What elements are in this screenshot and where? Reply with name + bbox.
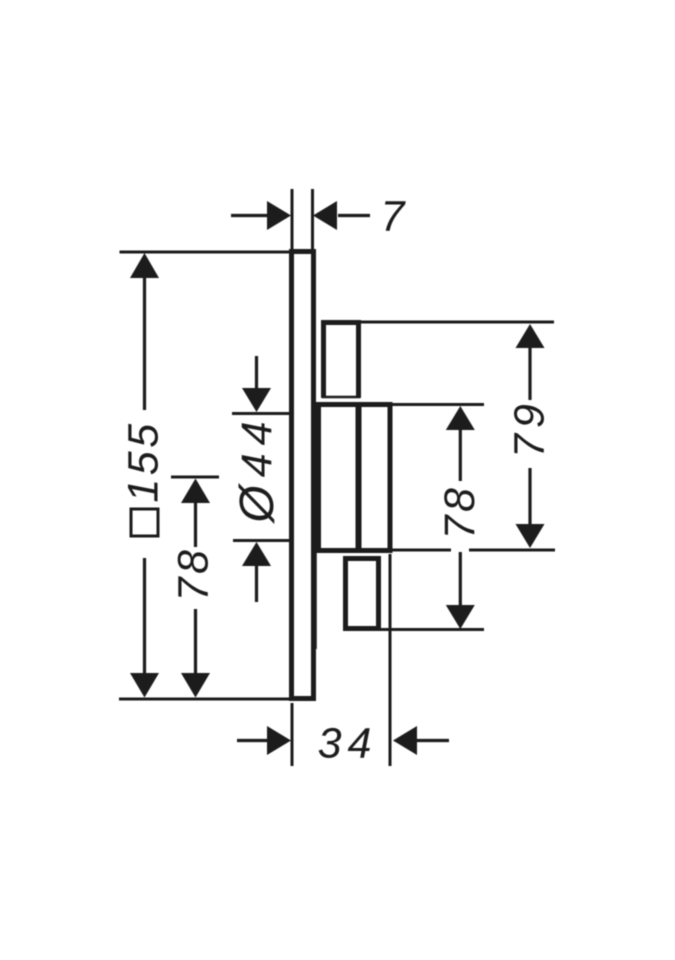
svg-text:78: 78: [170, 547, 218, 602]
dimension 78 right: line: [459, 429, 462, 481]
dimension 155: line: [143, 278, 146, 410]
square symbol of 155: [131, 509, 158, 536]
arrowhead 7 left: [267, 201, 291, 230]
extension line E4 (plate bottom, left): [119, 698, 290, 701]
arrowhead 155 bottom: [130, 673, 159, 698]
svg-text:79: 79: [506, 398, 554, 458]
arrowhead 79 bottom: [516, 524, 545, 548]
extension line E12 (plate back, bottom): [291, 703, 294, 766]
arrowhead 7 right: [313, 201, 337, 230]
svg-text:Ø44: Ø44: [231, 413, 284, 524]
upper knob: [324, 323, 359, 399]
svg-text:155: 155: [120, 420, 168, 502]
arrowhead 78R bottom: [446, 605, 475, 629]
svg-text:7: 7: [381, 193, 407, 241]
arrowhead 34 left: [267, 726, 291, 755]
arrowhead 79 top: [516, 324, 545, 348]
extension line E1 (plate back, top): [291, 189, 294, 251]
extension line E3 (plate top, left): [120, 251, 293, 254]
svg-text:78: 78: [436, 485, 484, 540]
dimension 78 left: line: [194, 503, 197, 547]
extension line E6 (d44 top): [232, 412, 289, 415]
arrowhead 78R top: [446, 406, 475, 430]
dimension 34: stems: [237, 739, 268, 742]
plate (escutcheon side view): [292, 252, 314, 699]
arrowhead 34 right: [393, 726, 417, 755]
arrowhead 78L top: [181, 479, 210, 504]
hidden edge below body: [314, 553, 317, 649]
valve body: [319, 405, 391, 551]
dimension 7: stems: [231, 214, 267, 217]
body divider line: [356, 404, 362, 551]
arrowhead d44 down: [242, 388, 271, 412]
extension line E9 (body bottom, right): [392, 549, 451, 552]
upper knob bottom edge: [322, 396, 360, 399]
lower knob: [346, 559, 379, 629]
extension line E8 (knob top, right): [359, 321, 554, 324]
dimension 79: line: [528, 347, 531, 400]
extension line E10 (body top, right): [392, 403, 484, 406]
extension line E13 (body front, bottom): [389, 554, 392, 766]
extension line E2 (plate front, top): [311, 189, 314, 251]
dimension d44: line: [255, 356, 258, 389]
arrowhead 78L bottom: [181, 673, 210, 698]
extension line E11 (lower knob bottom, right): [381, 628, 484, 631]
extension tick E5 (78-left top): [171, 476, 219, 479]
arrowhead d44 up: [242, 542, 271, 566]
extension line E7 (d44 bottom): [233, 539, 290, 542]
svg-text:34: 34: [318, 720, 378, 768]
arrowhead 155 top: [130, 253, 159, 278]
